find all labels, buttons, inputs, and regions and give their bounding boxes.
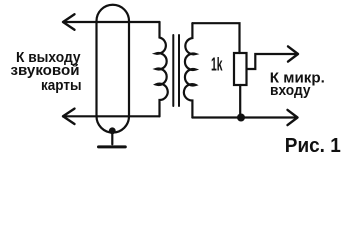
svg-text:Рис. 1: Рис. 1 [285, 134, 341, 157]
svg-text:1k: 1k [211, 54, 223, 74]
svg-text:звуковой: звуковой [11, 63, 80, 79]
svg-text:карты: карты [41, 78, 82, 94]
svg-text:входу: входу [270, 83, 311, 99]
